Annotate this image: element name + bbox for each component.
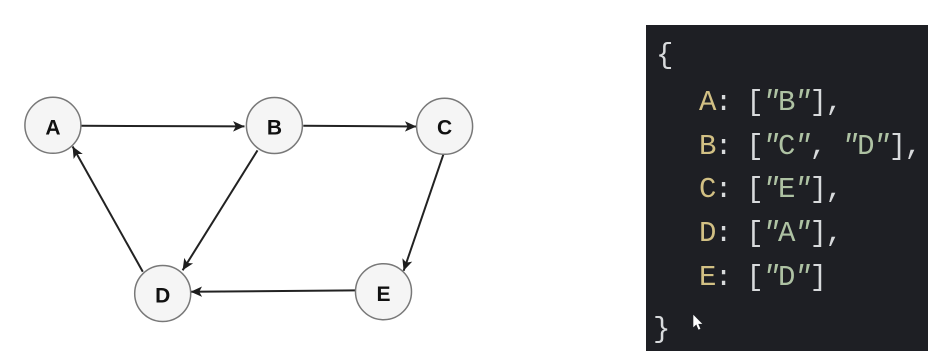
node E	[356, 264, 412, 320]
wire edge D to A	[73, 147, 143, 272]
line E	[699, 262, 825, 294]
svg-text:C: C	[437, 117, 452, 140]
svg-text:D: D	[155, 285, 170, 308]
wire edge A to B	[81, 125, 244, 128]
code panel	[646, 25, 928, 351]
line C	[699, 174, 841, 206]
line A	[699, 87, 841, 119]
node B	[246, 98, 302, 154]
brace close	[653, 314, 669, 346]
node C	[417, 98, 473, 154]
line D	[699, 218, 841, 250]
wire edge E to D	[191, 290, 356, 291]
wire edge C to E	[404, 154, 444, 271]
wire edge B to C	[303, 125, 416, 128]
line B	[699, 131, 920, 163]
svg-text:B: B	[267, 117, 282, 140]
graph SVG	[0, 0, 640, 364]
node A	[25, 97, 81, 153]
svg-text:E: E	[376, 283, 390, 306]
node D	[135, 266, 191, 322]
svg-text:A: A	[45, 117, 60, 140]
mouse cursor	[692, 314, 706, 332]
wire edge B to D	[183, 150, 258, 270]
brace open	[656, 40, 672, 72]
